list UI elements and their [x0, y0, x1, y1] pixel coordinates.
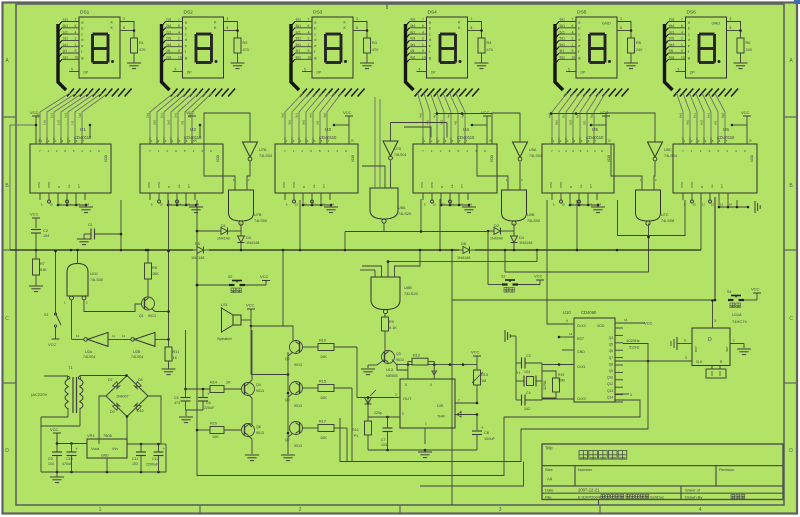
ground	[462, 207, 476, 213]
svg-text:R10: R10	[352, 428, 359, 432]
svg-text:VCC: VCC	[600, 110, 609, 115]
svg-text:1N4148: 1N4148	[519, 241, 532, 245]
svg-text:74LS20: 74LS20	[398, 212, 411, 216]
display DS4	[427, 10, 468, 79]
svg-text:DP: DP	[84, 71, 89, 75]
U2 VCC	[186, 110, 201, 144]
svg-text:LE: LE	[312, 184, 316, 188]
svg-text:4: 4	[699, 507, 702, 513]
svg-text:3: 3	[630, 393, 632, 397]
svg-text:S1: S1	[44, 313, 49, 317]
svg-text:R11: R11	[173, 350, 180, 354]
U11A clock wire	[615, 356, 692, 362]
wires U9C to U7C	[611, 144, 657, 190]
counter U6 CD40110	[673, 127, 757, 193]
svg-text:4: 4	[328, 149, 330, 153]
wire D3 to trunk	[240, 243, 242, 251]
svg-text:4: 4	[193, 149, 195, 153]
svg-text:6g1: 6g1	[721, 113, 725, 118]
U11A bottom pins	[706, 366, 726, 379]
svg-text:5: 5	[717, 149, 719, 153]
svg-text:6a1: 6a1	[669, 18, 675, 22]
svg-text:9: 9	[422, 49, 424, 53]
wire carry to U9A	[492, 113, 520, 144]
svg-text:CPU: CPU	[680, 182, 684, 188]
DS1 bus entry	[58, 22, 66, 91]
NAND output wire D1	[240, 224, 242, 232]
svg-text:74LS00: 74LS00	[254, 219, 267, 223]
U2 ground tie	[167, 200, 198, 207]
svg-text:1: 1	[293, 149, 295, 153]
wire vertical x452 to y300	[451, 250, 453, 302]
svg-text:DS6: DS6	[687, 10, 697, 16]
svg-text:C: C	[5, 316, 9, 322]
svg-text:U11A: U11A	[732, 312, 742, 317]
U3 VCC	[333, 110, 354, 144]
wire D1 to node	[228, 230, 242, 232]
svg-text:9: 9	[345, 149, 347, 153]
U6 ground tie	[718, 200, 750, 208]
svg-text:8: 8	[730, 26, 732, 30]
wires U7A to U7B	[204, 144, 250, 190]
inverter U7A	[243, 142, 273, 161]
svg-text:3e1: 3e1	[309, 113, 313, 118]
svg-text:R19: R19	[558, 373, 564, 377]
wire vertical U5 drop	[576, 200, 579, 251]
svg-text:2: 2	[402, 412, 404, 416]
display DS6	[686, 10, 727, 79]
DS6 bus entry	[665, 22, 673, 91]
svg-text:2c1: 2c1	[166, 30, 171, 34]
svg-text:Q5: Q5	[285, 398, 290, 402]
svg-text:C12: C12	[152, 457, 159, 461]
svg-text:DP: DP	[431, 71, 436, 75]
svg-text:220p: 220p	[374, 411, 382, 415]
corner artifact	[794, 0, 800, 4]
svg-text:R17: R17	[319, 420, 326, 424]
ground at C1	[77, 234, 91, 245]
svg-text:R1: R1	[139, 41, 144, 45]
svg-text:2007-12-21: 2007-12-21	[578, 488, 600, 493]
svg-text:4: 4	[308, 30, 310, 34]
svg-text:3: 3	[685, 356, 687, 360]
svg-text:5: 5	[304, 68, 306, 72]
svg-text:g: g	[314, 55, 316, 60]
svg-text:CPD: CPD	[430, 181, 434, 188]
resistor R4 470	[478, 38, 493, 53]
svg-text:4c1: 4c1	[410, 30, 415, 34]
DS5 bus entry	[555, 22, 563, 91]
svg-text:Y1: Y1	[516, 371, 520, 375]
svg-text:3c1: 3c1	[295, 113, 299, 118]
bus wires DS2 to U2	[146, 93, 212, 138]
U3 top pins and wires	[285, 138, 330, 145]
wire carry to U9C	[606, 113, 655, 144]
svg-text:10: 10	[178, 56, 182, 60]
wire vertical U4 drop	[439, 199, 441, 250]
svg-text:5c1: 5c1	[560, 30, 565, 34]
svg-text:473: 473	[174, 401, 180, 405]
svg-text:1f1: 1f1	[63, 49, 68, 53]
svg-text:RST: RST	[694, 346, 698, 352]
svg-text:3: 3	[620, 17, 622, 21]
bus wires DS5 to U5	[548, 93, 606, 138]
bus wires DS1 to U1	[36, 93, 109, 138]
svg-text:16: 16	[351, 139, 355, 143]
svg-text:470: 470	[243, 48, 249, 52]
svg-text:d: d	[429, 37, 431, 42]
svg-text:9: 9	[744, 149, 746, 153]
display DS1	[79, 10, 120, 79]
NAND U9B	[502, 190, 541, 225]
svg-text:3: 3	[735, 149, 737, 153]
U6 top pins and wires	[683, 138, 728, 145]
svg-text:U8B: U8B	[404, 285, 412, 290]
bridge wires	[80, 374, 162, 444]
svg-text:6: 6	[684, 339, 686, 343]
svg-text:+: +	[481, 425, 484, 430]
svg-text:R4: R4	[487, 41, 492, 45]
U1 top pins and wires	[40, 138, 85, 145]
svg-text:e: e	[688, 43, 690, 48]
svg-text:CPU: CPU	[37, 182, 41, 188]
svg-text:9: 9	[210, 149, 212, 153]
U5 ground tie	[569, 200, 600, 207]
svg-text:Q7: Q7	[285, 438, 290, 442]
svg-text:6b1: 6b1	[669, 24, 675, 28]
svg-text:7: 7	[422, 149, 424, 153]
svg-text:11: 11	[169, 203, 172, 207]
svg-text:1: 1	[158, 149, 160, 153]
svg-text:VCC: VCC	[50, 427, 59, 432]
svg-text:U7C: U7C	[661, 213, 669, 217]
svg-text:12: 12	[313, 203, 317, 207]
DS1 segment pins	[62, 18, 79, 72]
svg-text:10: 10	[681, 56, 685, 60]
svg-text:VR1: VR1	[87, 433, 96, 438]
svg-text:7: 7	[681, 18, 683, 22]
speaker LS1	[217, 303, 241, 341]
svg-text:74LS00: 74LS00	[527, 219, 540, 223]
svg-text:LE: LE	[177, 184, 181, 188]
svg-text:16: 16	[38, 139, 42, 143]
U11A right pin ground	[730, 339, 751, 355]
svg-text:D4: D4	[519, 236, 524, 240]
svg-text:7: 7	[149, 149, 151, 153]
svg-text:5: 5	[568, 68, 570, 72]
svg-text:9013: 9013	[294, 363, 302, 367]
diode D1 1N4148	[217, 224, 230, 241]
svg-text:S3: S3	[501, 275, 505, 279]
ground	[29, 286, 43, 292]
svg-text:2: 2	[75, 37, 77, 41]
wire vertical x715 trunk	[714, 197, 716, 301]
svg-text:104: 104	[524, 370, 530, 374]
wire stub under title	[598, 500, 600, 506]
svg-text:1c1: 1c1	[63, 30, 68, 34]
svg-text:C5: C5	[174, 396, 179, 400]
svg-text:13: 13	[322, 203, 326, 207]
svg-text:9: 9	[601, 149, 603, 153]
svg-text:g: g	[81, 55, 83, 60]
svg-text:1N4148: 1N4148	[490, 237, 503, 241]
svg-text:6d1: 6d1	[669, 37, 675, 41]
DS2 bus hatch	[171, 89, 236, 97]
capacitor C2	[31, 229, 49, 250]
svg-text:16: 16	[624, 318, 628, 322]
svg-text:6b1: 6b1	[686, 120, 690, 125]
svg-text:U1D: U1D	[90, 272, 98, 276]
VCC at S2	[260, 274, 270, 285]
svg-text:6: 6	[681, 24, 683, 28]
DS6 segment pins	[669, 18, 686, 72]
svg-text:d: d	[314, 37, 316, 42]
transistor Q1 9013	[139, 297, 169, 318]
svg-text:1: 1	[308, 43, 310, 47]
svg-text:Q14: Q14	[607, 395, 613, 399]
svg-text:2: 2	[166, 149, 168, 153]
svg-text:2: 2	[178, 37, 180, 41]
svg-text:10: 10	[562, 203, 566, 207]
svg-text:4: 4	[726, 149, 728, 153]
svg-text:C9: C9	[48, 457, 53, 461]
svg-text:9: 9	[681, 49, 683, 53]
svg-text:U9B: U9B	[527, 213, 535, 217]
resistor R18 1K	[352, 417, 372, 450]
svg-text:6: 6	[310, 149, 312, 153]
svg-text:Speaker: Speaker	[217, 336, 233, 341]
svg-text:6e1: 6e1	[707, 113, 711, 118]
svg-text:CPD: CPD	[559, 181, 563, 188]
svg-text:CT: CT	[460, 184, 464, 188]
diode D5 1N4148 on trunk	[191, 242, 209, 260]
svg-text:4: 4	[572, 30, 574, 34]
svg-text:5e1: 5e1	[560, 43, 566, 47]
svg-text:6: 6	[572, 24, 574, 28]
DS3 bus hatch	[300, 89, 365, 97]
svg-text:b: b	[185, 25, 187, 30]
bus wires DS6 to U6	[677, 93, 726, 138]
svg-text:C: C	[789, 316, 793, 322]
resistor R10 10K	[302, 339, 357, 360]
svg-text:12: 12	[178, 203, 182, 207]
wire D1 feed	[196, 230, 198, 232]
ground	[418, 452, 432, 458]
svg-text:GND: GND	[101, 454, 109, 458]
svg-text:10: 10	[422, 56, 426, 60]
VCC at 555	[471, 350, 481, 365]
wires U9A to U9B	[477, 144, 523, 190]
svg-text:VCC: VCC	[343, 110, 352, 115]
display DS2	[183, 10, 224, 79]
svg-text:3c1: 3c1	[296, 30, 301, 34]
svg-text:D7: D7	[108, 378, 113, 382]
svg-text:7: 7	[39, 149, 41, 153]
U11A data pin earth	[671, 337, 692, 350]
svg-text:b: b	[688, 25, 690, 30]
svg-text:6c1: 6c1	[669, 30, 674, 34]
svg-text:16K: 16K	[152, 272, 159, 276]
svg-text:3d1: 3d1	[296, 37, 302, 41]
svg-text:6: 6	[572, 149, 574, 153]
svg-text:VDD: VDD	[750, 154, 754, 162]
svg-text:9: 9	[178, 49, 180, 53]
wires crystal to U10	[542, 365, 574, 400]
ground	[591, 207, 605, 213]
U5 bottom pins	[552, 193, 601, 207]
svg-text:c: c	[185, 31, 187, 36]
transistor Q2 9013	[285, 341, 303, 368]
svg-text:R15: R15	[319, 380, 326, 384]
wire 555 OUT	[357, 347, 400, 399]
svg-text:12: 12	[451, 203, 455, 207]
svg-text:5: 5	[175, 68, 177, 72]
NAND output wire D2	[513, 224, 515, 232]
svg-text:VCC: VCC	[260, 274, 269, 279]
svg-text:C6: C6	[206, 401, 211, 405]
svg-text:D2: D2	[494, 224, 499, 228]
svg-text:LS1: LS1	[221, 303, 228, 307]
NAND U7C	[636, 190, 675, 225]
svg-text:Q5: Q5	[609, 343, 613, 347]
svg-text:7: 7	[422, 18, 424, 22]
R6 ground wire	[740, 53, 742, 63]
svg-text:240: 240	[636, 48, 642, 52]
svg-text:3: 3	[123, 17, 125, 21]
svg-text:U8A: U8A	[398, 206, 406, 210]
svg-text:14: 14	[729, 203, 733, 207]
svg-text:10M: 10M	[558, 379, 565, 383]
U4 ground tie	[440, 200, 471, 207]
svg-text:DIS: DIS	[437, 404, 444, 408]
svg-text:CT: CT	[720, 184, 724, 188]
svg-text:1N4148: 1N4148	[191, 256, 204, 260]
svg-text:Title: Title	[545, 446, 553, 451]
svg-text:U2B: U2B	[133, 350, 141, 354]
svg-text:11: 11	[304, 203, 307, 207]
svg-text:R6: R6	[746, 41, 751, 45]
svg-text:1a1: 1a1	[63, 18, 69, 22]
svg-text:512Hz: 512Hz	[629, 346, 640, 350]
U2B input wire	[155, 338, 170, 341]
resistor R12 10K	[408, 354, 437, 380]
resistor R16 10K	[196, 422, 242, 440]
button S3 set-minute	[488, 275, 540, 293]
svg-text:5f1: 5f1	[560, 49, 565, 53]
capacitor C8 100uF	[472, 425, 495, 450]
svg-text:4: 4	[466, 149, 468, 153]
svg-text:Revision: Revision	[719, 467, 734, 472]
svg-text:8: 8	[356, 26, 358, 30]
svg-text:1c1: 1c1	[50, 113, 54, 118]
flipflop U11A 74HC74	[692, 312, 747, 366]
svg-text:3: 3	[356, 17, 358, 21]
VCC output	[50, 427, 61, 444]
svg-text:7: 7	[458, 399, 460, 403]
wire vertical U3 drop	[299, 200, 301, 250]
svg-text:CPU: CPU	[147, 182, 151, 188]
svg-text:+: +	[76, 446, 79, 451]
svg-text:240: 240	[746, 48, 752, 52]
capacitor C12 2200uF	[146, 444, 166, 472]
555 trigger wire	[368, 404, 400, 418]
svg-text:RST: RST	[577, 337, 585, 341]
svg-text:3b1: 3b1	[288, 120, 292, 125]
svg-text:4f1: 4f1	[454, 120, 458, 125]
U6 bottom pins	[683, 193, 732, 207]
svg-text:3: 3	[336, 149, 338, 153]
svg-text:1: 1	[422, 43, 424, 47]
svg-text:5: 5	[580, 149, 582, 153]
button S4 set-time	[727, 290, 757, 308]
svg-text:5d1: 5d1	[560, 37, 566, 41]
svg-text:4g1: 4g1	[410, 56, 416, 60]
supply drive rail	[184, 330, 210, 390]
U1D output wire	[76, 249, 79, 264]
VCC below S1	[48, 337, 60, 347]
svg-text:7: 7	[572, 18, 574, 22]
svg-text:470: 470	[139, 48, 145, 52]
transistor Q5 9013	[285, 382, 303, 409]
trunk junction dots	[35, 249, 619, 252]
svg-text:CT: CT	[187, 184, 191, 188]
svg-text:3: 3	[594, 149, 596, 153]
svg-text:R14: R14	[210, 381, 217, 385]
svg-text:1: 1	[558, 149, 560, 153]
ground	[127, 63, 141, 69]
svg-text:5: 5	[319, 149, 321, 153]
svg-text:242: 242	[524, 407, 530, 411]
U5 VCC	[590, 110, 611, 144]
U1D input wires	[72, 300, 142, 339]
svg-text:R9: R9	[389, 320, 394, 324]
svg-text:R5: R5	[636, 41, 641, 45]
svg-text:9013: 9013	[148, 314, 156, 318]
counter U3 CD40110	[275, 127, 358, 193]
svg-text:C11: C11	[132, 457, 138, 461]
svg-text:8: 8	[620, 26, 622, 30]
inverter U9C	[648, 142, 678, 161]
svg-text:5: 5	[73, 149, 75, 153]
U1 VCC	[30, 110, 91, 144]
svg-text:CT: CT	[589, 184, 593, 188]
U8B input wires	[360, 249, 421, 277]
svg-text:10K: 10K	[320, 436, 327, 440]
bus wires DS3 to U3	[281, 93, 342, 138]
wire D2 to node	[501, 230, 515, 232]
svg-text:CLK0: CLK0	[577, 324, 586, 328]
R3 ground wire	[366, 53, 368, 63]
diode D2 1N4148	[490, 224, 503, 241]
svg-text:32768: 32768	[543, 380, 547, 390]
date row	[545, 488, 701, 493]
svg-text:6e1: 6e1	[669, 43, 675, 47]
svg-text:9: 9	[75, 49, 77, 53]
ground at C5 C6	[179, 410, 203, 423]
svg-text:74LS08: 74LS08	[661, 219, 674, 223]
svg-text:11: 11	[442, 203, 445, 207]
svg-text:b: b	[314, 25, 316, 30]
svg-text:16: 16	[749, 139, 753, 143]
svg-text:2: 2	[681, 37, 683, 41]
svg-text:U7D: U7D	[394, 147, 402, 151]
svg-text:D1: D1	[221, 224, 226, 228]
wire carry to U7A	[204, 113, 250, 144]
svg-text:1f1: 1f1	[71, 120, 75, 125]
junction at D2	[487, 230, 490, 233]
svg-text:6a1: 6a1	[679, 113, 683, 118]
wire y261 feed	[388, 250, 537, 262]
